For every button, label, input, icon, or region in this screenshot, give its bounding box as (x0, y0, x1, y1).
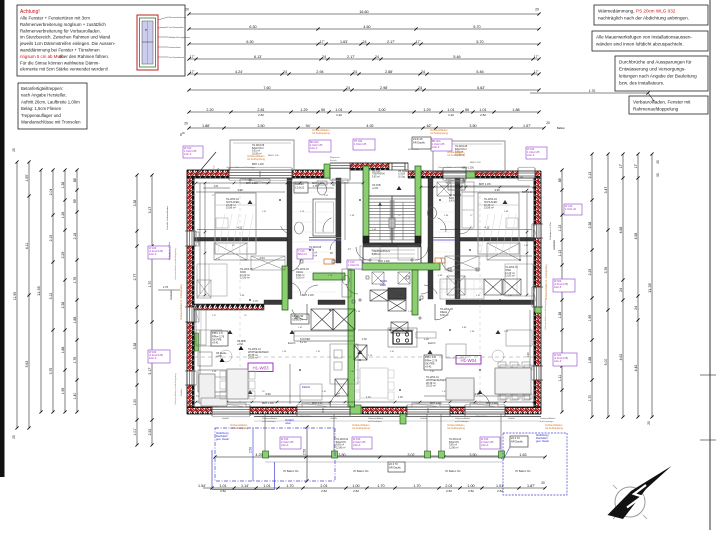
kitchen tiles right (442, 280, 482, 298)
svg-text:12,80 m²: 12,80 m² (505, 275, 515, 278)
sheet edge left (0, 0, 5, 477)
svg-text:1.57': 1.57' (523, 124, 531, 128)
svg-text:TREPPENH.: TREPPENH. (372, 174, 386, 176)
svg-text:3.50: 3.50 (469, 124, 476, 128)
svg-text:13,5x21: 13,5x21 (295, 185, 305, 189)
svg-text:Für die Simse können wahlweise: Für die Simse können wahlweise Dämm- (20, 60, 100, 65)
svg-text:H1-W03: H1-W03 (252, 366, 269, 371)
svg-text:3.00: 3.00 (378, 108, 385, 112)
svg-text:17': 17' (320, 40, 325, 44)
svg-text:BRH 2.135: BRH 2.135 (479, 183, 491, 186)
svg-text:mit Aufdopplung: mit Aufdopplung (447, 427, 466, 430)
dim chain left 4 (49, 168, 55, 413)
svg-text:Geländer: Geländer (170, 290, 173, 300)
svg-text:1.22: 1.22 (448, 113, 454, 117)
svg-text:mit Putzträger: mit Putzträger (540, 420, 554, 423)
svg-text:4.11': 4.11' (237, 225, 243, 229)
svg-text:mit Putzträger: mit Putzträger (368, 420, 382, 423)
interior wall bedroom divider right (455, 178, 460, 299)
svg-text:1.01: 1.01 (479, 108, 486, 112)
svg-text:17': 17' (619, 163, 623, 168)
svg-text:1.88: 1.88 (73, 317, 77, 324)
kitchen right appliances (484, 279, 521, 295)
svg-text:Vorbaurollladen mit Putzträger: Vorbaurollladen mit Putzträger (226, 166, 256, 169)
dim chain left inner 2 (148, 173, 154, 446)
window right 3 (537, 366, 540, 380)
svg-text:5,95 m²: 5,95 m² (372, 253, 380, 256)
outer wall right (534, 171, 541, 414)
svg-text:2.52: 2.52 (148, 429, 152, 436)
svg-text:Treppenauflager und: Treppenauflager und (21, 113, 61, 118)
window label W020 top right (526, 147, 547, 159)
svg-text:Estrich: Estrich (288, 342, 296, 345)
svg-text:AR Dachk: AR Dachk (511, 439, 523, 443)
green sliver left wall (195, 333, 199, 351)
svg-text:▼: ▼ (145, 28, 148, 32)
svg-text:Rolladen-Führungsschiene: Rolladen-Führungsschiene (169, 37, 190, 39)
svg-text:1.88': 1.88' (202, 124, 210, 128)
interior chain under top wall (195, 182, 536, 189)
svg-text:6.30: 6.30 (249, 25, 256, 29)
svg-text:4.24': 4.24' (235, 70, 243, 74)
svg-text:leitungen nach Angabe der Baul: leitungen nach Angabe der Bauleitung (619, 74, 697, 79)
svg-text:7.60: 7.60 (263, 86, 270, 90)
interior wall bath right (428, 178, 433, 299)
svg-text:2.13: 2.13 (588, 172, 592, 179)
window label right middle (553, 279, 575, 292)
window top left 2 (330, 166, 350, 169)
svg-text:OK RFB: OK RFB (237, 341, 246, 343)
interior chain above bottom wall (195, 401, 536, 404)
svg-text:4.25: 4.25 (255, 453, 262, 457)
svg-text:2.52: 2.52 (258, 113, 264, 117)
orange note rotated left (170, 240, 556, 320)
interior wall horizontal main hatched left (194, 304, 264, 310)
svg-text:Gefälle: Gefälle (508, 418, 516, 420)
svg-text:Alle Mauerwerksfugen von Insta: Alle Mauerwerksfugen von Installationsau… (596, 35, 692, 40)
svg-text:1.29: 1.29 (300, 108, 307, 112)
extra tiny symbols center (300, 260, 479, 303)
svg-text:Wandanschlüsse mit Tronsolen: Wandanschlüsse mit Tronsolen (21, 120, 81, 125)
window label bottom 2 (352, 437, 372, 449)
svg-text:LiAn-F: LiAn-F (149, 253, 157, 256)
svg-text:2.52: 2.52 (321, 489, 327, 493)
svg-text:1.76: 1.76 (73, 277, 77, 284)
bathroom tile grid left (293, 182, 336, 292)
dim chain right 1 (558, 168, 564, 413)
svg-text:2.38: 2.38 (61, 302, 65, 309)
svg-text:1.70: 1.70 (589, 89, 596, 93)
svg-text:24: 24 (353, 70, 357, 74)
svg-text:BRH 1.200: BRH 1.200 (262, 402, 274, 405)
stair vestibule labels (372, 170, 409, 190)
svg-text:LiAn-F: LiAn-F (310, 147, 318, 150)
svg-text:24: 24 (322, 55, 326, 59)
bed right top (478, 193, 519, 254)
bath right wc (428, 207, 437, 219)
dim chain top 4 (187, 55, 540, 61)
svg-text:88': 88' (558, 177, 562, 182)
window top left 1 (229, 171, 292, 177)
svg-text:1.76: 1.76 (73, 357, 77, 364)
svg-text:94': 94' (306, 124, 311, 128)
green sliver right wall (535, 307, 541, 313)
svg-text:1.63': 1.63' (340, 40, 348, 44)
interior door arcs extra (281, 226, 472, 294)
bathroom tile grid right (433, 182, 455, 292)
svg-text:LiAn-F: LiAn-F (481, 444, 489, 447)
windows bottom (212, 408, 505, 413)
outer wall top right (408, 171, 541, 178)
svg-text:15,86 m²: 15,86 m² (226, 207, 236, 210)
svg-text:1.29: 1.29 (423, 108, 430, 112)
svg-text:Rahmenverbreiterung möglsum +: Rahmenverbreiterung möglsum + zusätzlich (20, 22, 106, 27)
svg-text:24: 24 (375, 55, 379, 59)
svg-text:2.17': 2.17' (347, 55, 355, 59)
left dim labels 20 (12, 148, 16, 439)
svg-text:Achtung!: Achtung! (20, 9, 40, 15)
svg-text:2.17': 2.17' (387, 40, 395, 44)
svg-text:unten: unten (285, 422, 292, 425)
dim chain top 3 (187, 40, 540, 46)
small crosses marks (248, 178, 466, 320)
extra arcs hall (346, 284, 433, 294)
dim chain left 3 (36, 168, 43, 413)
svg-text:1.38: 1.38 (558, 312, 562, 319)
svg-text:im Sturzbereich. Zwischen Rahm: im Sturzbereich. Zwischen Rahmen und Wan… (20, 35, 111, 40)
svg-text:2.94: 2.94 (316, 70, 323, 74)
window label BD020 (309, 140, 331, 152)
apartment tag H1-W04 (456, 356, 481, 365)
balcony slab line (254, 417, 541, 422)
svg-text:4.60: 4.60 (363, 25, 370, 29)
window jamb detail (137, 15, 190, 70)
svg-text:20: 20 (184, 122, 188, 126)
svg-text:3.98: 3.98 (237, 188, 243, 192)
svg-text:24: 24 (346, 86, 350, 90)
texts above top wall (226, 149, 481, 169)
svg-text:Vorbaurollladen: Vorbaurollladen (262, 417, 278, 420)
svg-text:1.26: 1.26 (424, 338, 429, 341)
svg-text:17': 17' (534, 70, 539, 74)
svg-text:2.52: 2.52 (480, 113, 486, 117)
svg-text:Belag: 1,5cm Fliesen: Belag: 1,5cm Fliesen (21, 106, 62, 111)
bed blankets hatch right (481, 214, 516, 252)
section mark diagonal (194, 152, 216, 178)
svg-text:5.63: 5.63 (25, 361, 29, 368)
svg-text:VK Balkon OG: VK Balkon OG (283, 470, 299, 473)
orange notes Vorbaurollladen (230, 129, 564, 430)
window top right 2 (518, 173, 535, 176)
svg-text:1.70: 1.70 (286, 484, 293, 488)
svg-text:+2.82: +2.82 (372, 187, 379, 190)
extra furniture right living (446, 330, 532, 362)
radiators under windows (195, 179, 537, 407)
svg-text:50: 50 (656, 173, 660, 177)
svg-text:1.13: 1.13 (558, 225, 562, 232)
svg-text:17': 17' (416, 40, 421, 44)
svg-text:16.60: 16.60 (359, 10, 368, 14)
dining table right (495, 365, 532, 399)
dim vertical balcony blue 2.50 (249, 427, 254, 481)
bath glass partition blue (309, 238, 341, 241)
dim sub labels (258, 113, 486, 117)
svg-text:BRH 2.135: BRH 2.135 (408, 149, 419, 151)
svg-text:2.20: 2.20 (206, 108, 213, 112)
green pier top right (466, 171, 475, 178)
svg-text:9,20 m²: 9,20 m² (296, 277, 305, 280)
window label left middle (148, 246, 170, 259)
dim sub labels bottom (220, 481, 545, 493)
label note living right (424, 355, 442, 370)
svg-text:11.95: 11.95 (13, 292, 17, 300)
svg-text:5.00: 5.00 (604, 359, 608, 366)
door arc living right (435, 304, 450, 320)
svg-text:Estrich: Estrich (428, 342, 436, 345)
svg-text:3.75: 3.75 (49, 368, 53, 375)
svg-text:Betonfertigteiltreppen:: Betonfertigteiltreppen: (21, 86, 63, 91)
svg-text:4.62: 4.62 (619, 354, 623, 361)
svg-text:BRH 1.200: BRH 1.200 (470, 162, 481, 164)
svg-text:gem. Detail: gem. Detail (216, 438, 229, 441)
svg-text:88x2.01: 88x2.01 (298, 253, 308, 256)
svg-text:3.47: 3.47 (604, 187, 608, 194)
svg-text:5.70: 5.70 (476, 40, 483, 44)
door arc kind left (289, 282, 301, 296)
BRH labels balconies (180, 133, 474, 170)
svg-text:2.38: 2.38 (362, 338, 367, 341)
svg-text:5cm Dämmelement: 5cm Dämmelement (169, 56, 185, 59)
svg-text:2.77: 2.77 (133, 274, 137, 281)
dim chain top 2 (187, 25, 540, 31)
more tiny dim texts (212, 195, 529, 393)
svg-text:bzw. des Installateurs.: bzw. des Installateurs. (619, 81, 664, 86)
label AR Dachk top (412, 137, 431, 149)
svg-text:62': 62' (427, 124, 432, 128)
dim chain top 7 (187, 108, 540, 114)
svg-text:17': 17' (190, 70, 195, 74)
roller shutter line outside windows top (212, 167, 535, 417)
green wall hall left (348, 270, 355, 407)
svg-text:3.17': 3.17' (148, 367, 152, 375)
svg-text:20: 20 (12, 435, 16, 439)
label BD030 (294, 182, 308, 193)
svg-text:2.25: 2.25 (588, 269, 592, 276)
wardrobe xbox bedroom left (197, 256, 285, 298)
svg-text:Estrich: Estrich (330, 159, 337, 162)
svg-text:11.35: 11.35 (647, 282, 652, 292)
svg-text:4.58: 4.58 (634, 233, 638, 240)
svg-text:mit Aufdopplung: mit Aufdopplung (430, 132, 449, 135)
svg-text:Fallrohr: Fallrohr (302, 386, 310, 389)
svg-text:1.01: 1.01 (214, 185, 219, 188)
bed left top (215, 193, 256, 254)
svg-text:LiAn-F: LiAn-F (554, 360, 562, 363)
svg-text:99': 99' (73, 198, 77, 203)
svg-text:20: 20 (535, 8, 539, 12)
green wall left apartment (282, 266, 288, 310)
svg-text:Gefälle: Gefälle (222, 418, 230, 420)
svg-text:gem. Detail: gem. Detail (536, 440, 549, 443)
bath left tub (313, 199, 336, 236)
dim chain left 1 (13, 160, 19, 429)
dim chain bottom 2 (198, 484, 547, 490)
dim line bedroom right (440, 225, 532, 229)
svg-text:12,86 m²: 12,86 m² (449, 446, 459, 449)
svg-text:Vorbaurollladen m. Aufdopplung: Vorbaurollladen m. Aufdopplung (180, 284, 183, 320)
label AR Dachk bottom right (510, 436, 528, 447)
apartment tag H1-W03 (248, 363, 273, 372)
svg-text:LiAn-F: LiAn-F (353, 444, 361, 447)
svg-text:2.88': 2.88' (385, 70, 393, 74)
balcony top left outline (230, 140, 294, 170)
svg-text:OK Decke: OK Decke (216, 353, 227, 355)
svg-text:2.52: 2.52 (497, 489, 503, 493)
svg-text:Geefälle Vorbaurollladen: Geefälle Vorbaurollladen (166, 205, 169, 230)
svg-text:BRH 1.200: BRH 1.200 (522, 191, 534, 194)
bed blankets hatch left (218, 214, 253, 252)
window top right 1 (443, 173, 466, 176)
dim end labels 20 (185, 8, 539, 12)
kitchen center appliances (370, 290, 408, 333)
svg-text:4.20: 4.20 (526, 352, 530, 358)
svg-text:20: 20 (546, 121, 550, 125)
window label bottom 1 (280, 437, 301, 449)
outer wall left (187, 170, 194, 414)
bath right glass partition (433, 238, 455, 241)
note box Mauerwerksfugen (592, 31, 708, 51)
door arc bath right (437, 218, 446, 232)
svg-text:1.76: 1.76 (253, 300, 258, 303)
bed left mid (197, 264, 227, 296)
stair head wall (330, 163, 408, 170)
svg-text:mit Aufdopplung: mit Aufdopplung (230, 427, 249, 430)
svg-text:Entwässerung und Versorgungs-: Entwässerung und Versorgungs- (619, 67, 686, 72)
svg-text:elemente mit 5cm Stärke verwen: elemente mit 5cm Stärke verwendet werden… (20, 67, 108, 72)
svg-text:Durchbrüche und Aussparungen f: Durchbrüche und Aussparungen für (619, 60, 692, 65)
label kitchen (291, 314, 309, 324)
svg-text:Gefälle: Gefälle (330, 418, 338, 420)
svg-text:mit Putzträger: mit Putzträger (455, 420, 469, 423)
sofa left (198, 352, 226, 392)
svg-text:VK Balkon OG: VK Balkon OG (445, 470, 461, 473)
svg-text:3.38: 3.38 (133, 343, 137, 350)
svg-text:+2.635: +2.635 (398, 174, 406, 176)
svg-text:+5.41: +5.41 (212, 341, 219, 345)
dim chain top 6 (187, 86, 540, 92)
rotated orange note left balcony (214, 164, 221, 172)
svg-text:1.01': 1.01' (133, 428, 137, 436)
door arc bedroom right (441, 258, 453, 272)
svg-text:1.50: 1.50 (133, 399, 137, 406)
svg-text:2.38: 2.38 (588, 222, 592, 229)
svg-text:Magnesia: Magnesia (330, 157, 340, 159)
dim chain top 16.60 (187, 10, 540, 16)
svg-text:Vorbaurollladen, Fenster mit: Vorbaurollladen, Fenster mit (633, 100, 691, 105)
svg-text:Rahmenverbreiterung: Rahmenverbreiterung (169, 16, 186, 19)
svg-text:BRH 1.300: BRH 1.300 (378, 260, 390, 263)
svg-text:Vorbaurollladen m. Aufdopplung: Vorbaurollladen m. Aufdopplung (545, 264, 548, 300)
note box prefab stairs (18, 83, 87, 129)
svg-text:1.01: 1.01 (219, 484, 226, 488)
svg-text:4.11: 4.11 (25, 243, 29, 249)
svg-text:4.42: 4.42 (634, 365, 638, 372)
dark appliance block (388, 288, 406, 299)
balcony top left label (252, 144, 265, 155)
green pier bottom wall (350, 405, 361, 414)
stove right (388, 328, 417, 347)
svg-text:wanddämmung bei Fenster + Türr: wanddämmung bei Fenster + Türrahmen (20, 48, 100, 53)
svg-text:Balkon: Balkon (557, 126, 565, 130)
svg-text:mit Aufdopplung: mit Aufdopplung (352, 427, 371, 430)
svg-text:24: 24 (362, 40, 366, 44)
svg-text:Vorbaurollladen mit Putzträger: Vorbaurollladen mit Putzträger (438, 166, 468, 169)
svg-text:3.12: 3.12 (49, 293, 53, 300)
window label right lower (553, 353, 577, 366)
stair wall foot blocks (363, 236, 421, 243)
apartment door right (415, 247, 428, 263)
svg-text:12,86 m²: 12,86 m² (336, 446, 346, 449)
blue notes (216, 279, 549, 443)
svg-text:2.52: 2.52 (353, 489, 359, 493)
green wall stair right (415, 166, 421, 243)
svg-text:Rahmenaufdoppelung: Rahmenaufdoppelung (633, 107, 679, 112)
svg-text:1.14': 1.14' (241, 484, 249, 488)
balcony blue extension left (212, 450, 275, 490)
kitchen counters right (440, 279, 484, 299)
green pier top left (324, 164, 330, 178)
svg-text:17': 17' (534, 55, 539, 59)
svg-text:17': 17' (634, 163, 638, 168)
interior wall bedroom divider left (287, 178, 292, 299)
svg-text:4.68: 4.68 (619, 227, 623, 234)
dim chain top 8 (187, 124, 545, 130)
dim chain left 5 (61, 168, 67, 413)
green wall hall right (412, 270, 418, 315)
dim chain bottom 1 (213, 453, 546, 459)
bath right tub (448, 181, 465, 190)
note box Durchbrueche (615, 56, 708, 91)
window left 2 (190, 307, 193, 322)
balcony dashed blue left (215, 428, 335, 481)
svg-text:1.88: 1.88 (61, 347, 65, 354)
svg-text:2.52: 2.52 (468, 489, 474, 493)
svg-text:AR Dachk.: AR Dachk. (413, 140, 426, 144)
svg-text:17': 17' (190, 55, 195, 59)
svg-text:Gefälle: Gefälle (181, 388, 183, 396)
kitchen xboxes near green wall (335, 345, 367, 396)
svg-text:6.93: 6.93 (265, 392, 271, 396)
svg-text:1.70: 1.70 (588, 395, 592, 402)
window left 1 (190, 231, 193, 246)
svg-text:2.50: 2.50 (249, 447, 253, 453)
svg-text:2.98': 2.98' (380, 86, 388, 90)
interior vchain left rooms (204, 182, 529, 297)
bath left wc (317, 181, 327, 195)
svg-text:24: 24 (421, 70, 425, 74)
svg-text:Fensterrahmen: Fensterrahmen (169, 46, 181, 49)
svg-text:2.01: 2.01 (320, 484, 327, 488)
window sill inner lines (197, 181, 536, 405)
svg-text:LiAn-F: LiAn-F (184, 153, 192, 156)
window right 2 (537, 287, 540, 307)
svg-text:BRH 1.200: BRH 1.200 (312, 182, 324, 185)
window label left lower (148, 350, 170, 363)
wardrobe x kind right (487, 243, 520, 260)
svg-text:20: 20 (12, 148, 16, 152)
svg-text:1.01: 1.01 (335, 108, 342, 112)
svg-text:1.70: 1.70 (413, 484, 420, 488)
